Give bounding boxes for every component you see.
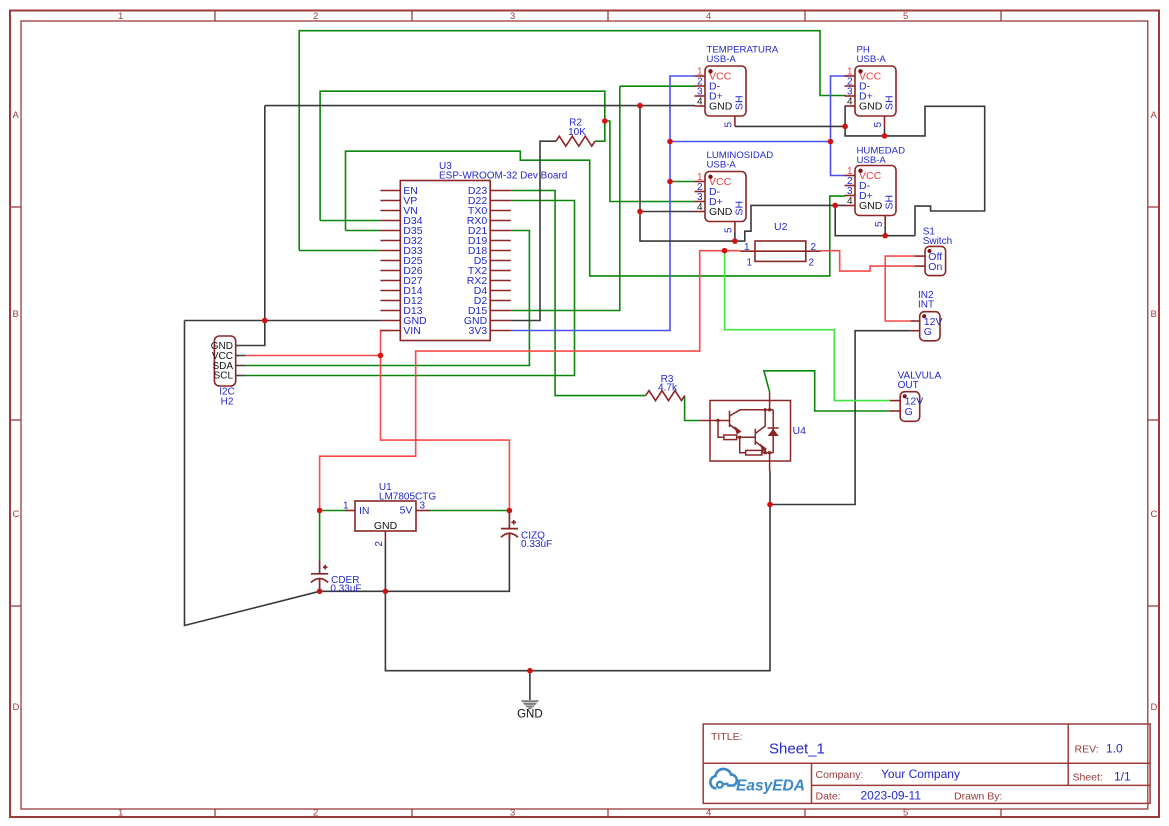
junction GND LUMINOSIDAD pin4 <box>637 209 643 215</box>
svg-text:3V3: 3V3 <box>469 325 488 337</box>
junction 3V3 branch PH/HUMEDAD <box>667 139 673 145</box>
svg-text:4: 4 <box>847 97 853 108</box>
svg-text:D: D <box>13 702 20 713</box>
svg-text:C: C <box>1151 509 1158 520</box>
svg-text:5V: 5V <box>400 505 413 517</box>
svg-text:5: 5 <box>903 808 908 819</box>
svg-text:0.33uF: 0.33uF <box>330 583 361 594</box>
junction GND I2C branch <box>262 318 268 324</box>
svg-text:USB-A: USB-A <box>857 54 887 65</box>
svg-text:USB-A: USB-A <box>707 159 737 170</box>
svg-text:IN: IN <box>359 505 370 517</box>
svg-text:Company:: Company: <box>816 769 864 781</box>
wire HUM pin4 junction down to SH line <box>835 205 915 235</box>
svg-text:GND: GND <box>859 101 883 113</box>
junction GND CDER bottom <box>317 589 323 595</box>
svg-text:4: 4 <box>706 11 711 22</box>
svg-text:Sheet:: Sheet: <box>1073 772 1103 784</box>
wire ESP GND net down-left diagonal to CDER <box>185 321 320 626</box>
svg-text:USB-A: USB-A <box>707 54 737 65</box>
svg-text:1: 1 <box>118 808 123 819</box>
ground symbol GND <box>517 700 543 720</box>
junction GND PH SH <box>882 133 888 139</box>
wire U1 pin1 green stub <box>320 510 345 512</box>
svg-text:2: 2 <box>313 808 318 819</box>
regulator U1 LM7805CTG <box>343 482 436 547</box>
junction node 12V at fuse U2 pin1 <box>722 248 728 254</box>
svg-text:Switch: Switch <box>923 236 952 247</box>
svg-text:2023-09-11: 2023-09-11 <box>861 789 922 803</box>
junction U1 5V out / CIZQ top <box>507 508 513 514</box>
svg-text:ESP-WROOM-32 Dev Board: ESP-WROOM-32 Dev Board <box>439 171 567 182</box>
svg-text:U2: U2 <box>774 221 788 233</box>
EasyEDA logo <box>710 769 805 795</box>
wire GND symbol drop <box>529 671 531 700</box>
svg-text:SH: SH <box>884 195 896 210</box>
svg-text:10K: 10K <box>568 127 586 138</box>
junction GND PH pin4 <box>842 124 848 130</box>
capacitor CIZQ 0.33uF <box>501 511 552 550</box>
wire bright green U2 junction to VALVULA 12V <box>725 251 890 401</box>
svg-text:2: 2 <box>811 242 817 253</box>
junction GND LUMINOSIDAD SH <box>732 238 738 244</box>
svg-text:GND: GND <box>709 206 733 218</box>
svg-text:Your Company: Your Company <box>881 767 960 781</box>
svg-text:5: 5 <box>724 122 735 128</box>
USB-A connector HUMEDAD <box>845 146 906 228</box>
wire GND black: ESP left GND / I2C GND / top rail <box>185 320 381 322</box>
wire R3 right to U4 base <box>685 396 701 421</box>
darlington U4 <box>700 392 790 470</box>
svg-text:2: 2 <box>374 541 385 547</box>
svg-text:G: G <box>924 326 932 338</box>
svg-text:0.33uF: 0.33uF <box>521 539 552 550</box>
svg-text:GND: GND <box>517 709 543 721</box>
wire ESP D22 to I2C SCL <box>246 201 575 376</box>
wire GND black vertical x=640 to LUM GND and SH <box>640 106 735 242</box>
wire TEMP SH to PH GND <box>735 125 845 127</box>
svg-text:1: 1 <box>343 501 349 512</box>
resistor R2 10K <box>556 117 595 146</box>
svg-text:4: 4 <box>847 196 853 207</box>
svg-text:U4: U4 <box>793 425 807 437</box>
wire U4 collector to VALVULA G <box>764 371 890 411</box>
svg-text:G: G <box>905 406 913 418</box>
svg-text:1: 1 <box>747 258 753 269</box>
USB-A connector LUMINOSIDAD <box>695 150 774 233</box>
USB-A connector TEMPERATURA <box>695 44 779 127</box>
junction node D34/R2 <box>602 118 608 124</box>
svg-text:4: 4 <box>706 808 711 819</box>
svg-text:SCL: SCL <box>214 371 234 382</box>
svg-text:B: B <box>1151 309 1157 320</box>
svg-text:5: 5 <box>903 11 908 22</box>
svg-text:INT: INT <box>918 300 934 311</box>
wire CDER top green <box>319 511 321 562</box>
svg-text:5: 5 <box>874 221 885 227</box>
svg-text:On: On <box>928 261 942 273</box>
svg-text:A: A <box>1151 110 1158 121</box>
junction U1 IN / CDER top <box>317 508 323 514</box>
connector IN2 INT <box>910 290 942 341</box>
wire red S1 Off to IN2 12V <box>885 256 915 321</box>
resistor R3 4.7k <box>646 374 685 401</box>
junction 3V3 right column <box>828 139 834 145</box>
wire ESP right GND to R2 left <box>511 141 556 320</box>
ESP32 U3 <box>380 161 567 341</box>
wire LUMINOSIDAD VCC green stub from 3V3 junction <box>670 181 695 183</box>
I2C header H2 <box>211 336 246 407</box>
junction 3V3 branch LUMINOSIDAD VCC <box>667 179 673 185</box>
USB-A connector PH <box>845 44 897 127</box>
wire D33 net: ESP D33 to PH D+ <box>299 250 380 252</box>
svg-text:Sheet_1: Sheet_1 <box>769 741 825 758</box>
svg-text:1.0: 1.0 <box>1106 742 1123 756</box>
svg-text:H2: H2 <box>221 396 234 407</box>
svg-text:VIN: VIN <box>403 325 421 337</box>
junction GND top rail <box>637 103 643 109</box>
svg-text:1/1: 1/1 <box>1114 770 1131 784</box>
junction GND U4 emitter <box>767 502 773 508</box>
wire R2 right to junction and LUMINOSIDAD D+ <box>595 121 695 202</box>
svg-text:3: 3 <box>510 808 515 819</box>
wire red 12V: U2 to U1 IN <box>320 251 741 511</box>
svg-text:Date:: Date: <box>816 791 841 803</box>
wire D35 net: ESP D35 to HUMEDAD D+ <box>346 230 381 232</box>
wire red U2 pin2 to S1 On <box>821 251 915 271</box>
svg-text:REV:: REV: <box>1075 744 1099 756</box>
svg-text:USB-A: USB-A <box>857 155 887 166</box>
svg-text:3: 3 <box>510 11 515 22</box>
svg-text:1: 1 <box>118 11 123 22</box>
wire D34 net: ESP D34 up over to junction <box>320 220 380 222</box>
junction GND U1 pin2 <box>383 589 389 595</box>
svg-text:B: B <box>13 309 19 320</box>
svg-text:Drawn By:: Drawn By: <box>954 791 1002 803</box>
svg-text:3: 3 <box>420 501 426 512</box>
junction GND HUMEDAD SH <box>882 233 888 239</box>
wire LUM SH stair to HUMEDAD GND <box>735 205 846 241</box>
wire U1 GND pin down <box>384 542 386 592</box>
junction 5V I2C VCC branch <box>378 353 384 359</box>
svg-text:4.7k: 4.7k <box>658 383 678 394</box>
svg-text:OUT: OUT <box>898 380 919 391</box>
wire ESP D21 to I2C SDA <box>246 231 530 366</box>
svg-text:EasyEDA: EasyEDA <box>736 778 805 795</box>
svg-text:SH: SH <box>884 95 896 110</box>
svg-text:SH: SH <box>734 95 746 110</box>
svg-text:C: C <box>13 509 20 520</box>
svg-text:5: 5 <box>873 122 884 128</box>
svg-text:4: 4 <box>697 97 703 108</box>
wire GND rail under U1 <box>320 534 510 591</box>
capacitor CDER 0.33uF <box>311 561 362 594</box>
svg-text:D: D <box>1151 702 1158 713</box>
svg-text:4: 4 <box>697 202 703 213</box>
title block <box>703 724 1150 803</box>
wire 3V3 blue net <box>511 76 695 331</box>
junction GND HUMEDAD pin4 <box>832 203 838 209</box>
fuse U2 <box>740 221 820 269</box>
svg-text:A: A <box>13 110 20 121</box>
junction GND symbol tap <box>527 668 533 674</box>
wire U1 5V output to CIZQ junction <box>430 510 509 512</box>
wire TEMPERATURA D- to ESP D15 <box>620 85 695 87</box>
svg-text:GND: GND <box>374 520 398 532</box>
svg-text:2: 2 <box>809 258 815 269</box>
svg-text:2: 2 <box>313 11 318 22</box>
svg-text:SH: SH <box>734 201 746 216</box>
svg-text:1: 1 <box>744 242 750 253</box>
svg-text:GND: GND <box>859 200 883 212</box>
svg-text:TITLE:: TITLE: <box>711 731 743 743</box>
svg-text:5: 5 <box>724 227 735 233</box>
connector VALVULA OUT <box>890 371 941 422</box>
wire U4 emitter to IN2 G <box>770 331 910 505</box>
switch S1 <box>915 227 952 276</box>
svg-text:GND: GND <box>709 101 733 113</box>
wire red 5V: U1 out to ESP VIN and I2C VCC <box>381 331 510 511</box>
wire ESP D23 to R3 left <box>511 191 646 396</box>
